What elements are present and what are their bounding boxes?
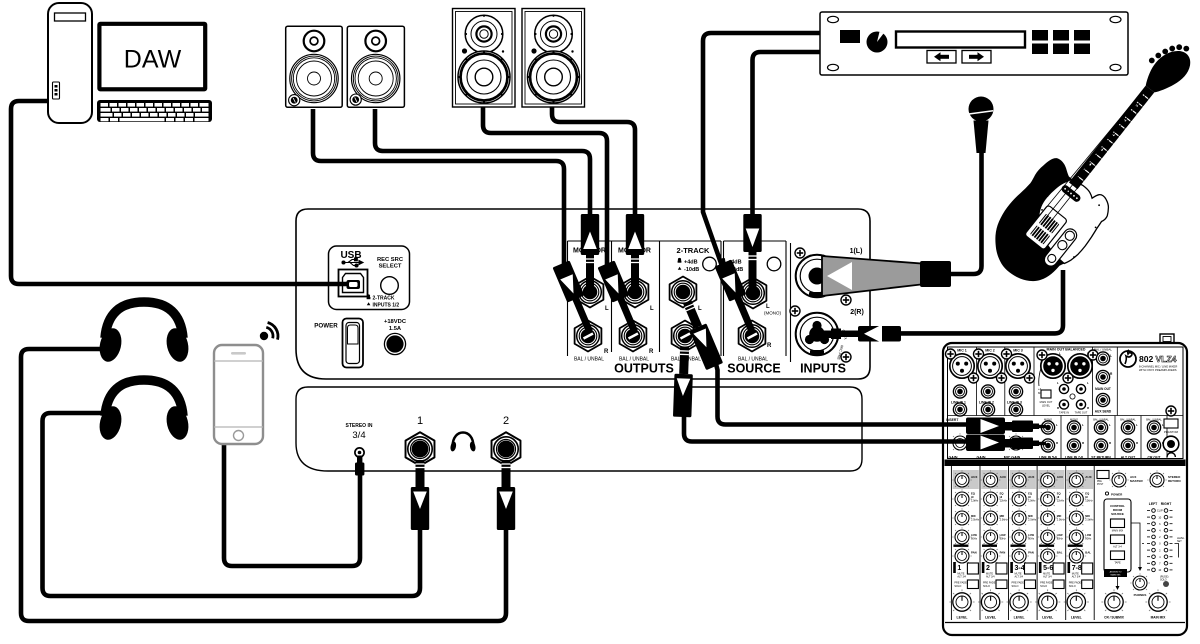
2-TRACK L jack [670, 277, 697, 308]
svg-text:STEREO IN: STEREO IN [346, 423, 373, 429]
svg-text:AUX: AUX [971, 475, 977, 479]
Mackie logo [1120, 351, 1136, 367]
svg-text:MAIN OUT: MAIN OUT [1095, 387, 1111, 391]
svg-text:POWER: POWER [314, 323, 338, 330]
svg-text:BAL: BAL [1057, 551, 1063, 555]
wire: phones 2 to headphone A [21, 349, 506, 621]
svg-text:L: L [1109, 423, 1111, 427]
svg-text:TAPE IN: TAPE IN [1059, 411, 1069, 415]
svg-text:L: L [1136, 423, 1138, 427]
svg-text:12kHz: 12kHz [1028, 499, 1036, 503]
802 AUX MASTER knob [1109, 470, 1129, 487]
svg-text:12kHz: 12kHz [1000, 499, 1008, 503]
svg-text:LEVEL: LEVEL [1042, 616, 1053, 620]
POWER switch [314, 319, 363, 368]
plug: 2-TRACK R output (to 802) [673, 347, 694, 418]
svg-text:L: L [698, 306, 702, 312]
svg-text:GAIN: GAIN [949, 456, 958, 460]
svg-text:WITH ONYX PREAMPLIFIERS: WITH ONYX PREAMPLIFIERS [1139, 368, 1177, 372]
2-TRACK R jack [672, 321, 699, 352]
svg-text:12kHz: 12kHz [1085, 499, 1093, 503]
svg-text:LEVEL: LEVEL [985, 616, 996, 620]
svg-text:L: L [1059, 352, 1061, 356]
802 LINE IN 2 jack [981, 385, 994, 398]
svg-text:2.5kHz: 2.5kHz [1028, 518, 1037, 522]
svg-text:PRE: PRE [1097, 481, 1102, 483]
MONITOR 2 L jack [622, 277, 649, 308]
svg-text:POWER: POWER [1111, 493, 1123, 497]
802VLZ4 mixer [943, 334, 1187, 635]
MONITOR 1 L jack [577, 277, 604, 308]
plug: MONITOR2 R diagonal (from speaker C) [598, 260, 643, 334]
svg-text:2.5kHz: 2.5kHz [971, 518, 980, 522]
svg-text:LINE IN 7-8: LINE IN 7-8 [1065, 456, 1083, 460]
svg-text:R: R [649, 349, 654, 355]
svg-text:2(R): 2(R) [850, 309, 864, 316]
plug: 1/4-inch into 2(R) from guitar [831, 325, 901, 344]
svg-text:MAIN OUT BALANCED: MAIN OUT BALANCED [1047, 348, 1086, 352]
802 STEREO RETURN knob [1147, 470, 1167, 487]
wire: 2-TRACK L to 802 line in 5-6 L [716, 362, 971, 425]
802 LINE IN 3 jack [1009, 385, 1022, 398]
svg-text:CR / SUBMIX: CR / SUBMIX [1104, 616, 1125, 620]
headphone A [96, 302, 191, 364]
wire: speaker A to MONITOR1 R [313, 109, 564, 266]
plug: MONITOR1 L (from speaker B) [581, 214, 599, 286]
svg-text:LEVEL: LEVEL [957, 616, 968, 620]
plug: 802 line in 5-6 L (from 2-TRACK L) [966, 418, 1046, 435]
svg-text:TAPE OUT: TAPE OUT [1075, 411, 1088, 415]
svg-text:REC SRC: REC SRC [377, 257, 404, 263]
svg-text:L: L [1057, 381, 1059, 385]
svg-text:80Hz: 80Hz [1085, 537, 1092, 541]
svg-text:RIGHT: RIGHT [1161, 502, 1172, 506]
svg-text:80Hz: 80Hz [1028, 537, 1035, 541]
svg-text:VLZ4: VLZ4 [1156, 354, 1177, 364]
802 TAPE IN/OUT RCA jacks [1059, 384, 1068, 393]
plug: 802 line in 5-6 R (from 2-TRACK R) [966, 435, 1046, 452]
svg-text:AUX: AUX [1057, 475, 1063, 479]
svg-text:802: 802 [1139, 354, 1154, 364]
svg-text:CLIP: CLIP [1157, 509, 1163, 513]
plug: mini plug into STEREO IN 3/4 [355, 456, 364, 476]
svg-text:2-TRACK: 2-TRACK [677, 246, 710, 255]
svg-text:ALT 3-4: ALT 3-4 [1113, 546, 1122, 549]
svg-text:INSERT: INSERT [946, 418, 959, 422]
svg-text:POST: POST [1097, 484, 1104, 486]
svg-text:L: L [1110, 354, 1112, 358]
svg-text:MASTER: MASTER [1130, 479, 1144, 483]
svg-text:RETURN: RETURN [1168, 479, 1181, 483]
wire: speaker B to MONITOR1 L [375, 109, 590, 220]
svg-text:L: L [1082, 423, 1084, 427]
svg-text:SOLO: SOLO [1012, 585, 1019, 588]
svg-text:TAPE: TAPE [1114, 562, 1121, 565]
svg-text:2-TRACK: 2-TRACK [373, 296, 395, 302]
svg-text:80Hz: 80Hz [971, 537, 978, 541]
keyboard [97, 100, 212, 122]
svg-text:L: L [650, 306, 654, 312]
svg-text:+4dB: +4dB [684, 260, 698, 266]
802 channel gain knobs [950, 433, 970, 450]
headphone B [96, 380, 191, 442]
DAW monitor [97, 22, 207, 92]
svg-text:INPUTS: INPUTS [800, 362, 846, 376]
wire: 2-TRACK R to 802 line in 5-6 R [684, 415, 970, 442]
svg-text:1(L): 1(L) [850, 248, 863, 255]
svg-text:SOLO: SOLO [1069, 585, 1076, 588]
svg-text:EQ: EQ [1085, 492, 1089, 496]
svg-text:PAN: PAN [1000, 551, 1006, 555]
svg-text:USB: USB [340, 250, 361, 261]
wire: guitar to 2(R) plug [898, 270, 1063, 333]
svg-text:MAIN MIX: MAIN MIX [1112, 530, 1124, 533]
802 MAIN MIX knob [1145, 589, 1170, 611]
svg-text:3-4: 3-4 [1015, 565, 1025, 572]
802 main out level switch [1039, 368, 1041, 386]
svg-text:MIC 2: MIC 2 [985, 349, 995, 353]
USB trident icon [342, 258, 363, 267]
svg-text:80Hz: 80Hz [1000, 537, 1007, 541]
svg-text:7-8: 7-8 [1072, 565, 1082, 572]
802 jack panel dividers [948, 347, 1184, 459]
studio monitor speaker C [453, 9, 516, 108]
svg-text:MIC 1: MIC 1 [957, 349, 967, 353]
svg-text:+18VDC: +18VDC [384, 319, 407, 325]
svg-text:1: 1 [957, 565, 961, 572]
svg-text:ALT 3/4: ALT 3/4 [1072, 576, 1081, 579]
802 CR/SUBMIX knob [1101, 589, 1126, 611]
smartphone [214, 345, 263, 444]
802 LINE IN 1 jack [953, 385, 966, 398]
OUTPUTS section frame [568, 241, 791, 362]
svg-text:BAL / UNBAL: BAL / UNBAL [1094, 348, 1112, 352]
802 channel strip 3-4 [1007, 466, 1037, 620]
802 CONTROL ROOM SOURCE [1104, 499, 1131, 572]
wire: computer USB to controller USB port [11, 101, 349, 284]
plug: phones 1 [411, 460, 429, 530]
svg-text:MAIN MIX: MAIN MIX [1111, 574, 1122, 577]
SOURCE R jack [739, 321, 766, 352]
802 assign to main mix button [1104, 569, 1127, 577]
svg-text:SET: SET [1177, 540, 1182, 543]
microphone [969, 97, 994, 154]
svg-text:PAN: PAN [971, 551, 977, 555]
802 PHANTOM switch [1166, 406, 1176, 416]
electric guitar [995, 44, 1190, 281]
svg-text:5-6: 5-6 [1043, 565, 1053, 572]
svg-text:CR OUT: CR OUT [1148, 456, 1162, 460]
STEREO IN 3/4 mini jack [346, 423, 373, 457]
802 channel 2 lower jack [981, 403, 994, 416]
plug: SOURCE L (from rack) [743, 214, 761, 293]
svg-text:SOURCE: SOURCE [1111, 512, 1124, 516]
svg-text:AUX: AUX [1028, 475, 1034, 479]
svg-text:MAIN MIX: MAIN MIX [1151, 616, 1167, 620]
svg-text:(MONO): (MONO) [764, 311, 781, 316]
802 power connector tab [1160, 334, 1174, 344]
wire: microphone to XLR plug [950, 150, 982, 274]
svg-text:L: L [1056, 423, 1058, 427]
svg-text:MIC 3: MIC 3 [1013, 349, 1023, 353]
svg-text:OUTPUTS: OUTPUTS [614, 362, 674, 376]
svg-text:-10dB: -10dB [684, 267, 699, 273]
802 channel 1 lower jack [953, 403, 966, 416]
studio monitor speaker D [522, 9, 585, 108]
svg-text:L: L [766, 304, 770, 310]
802 channel strip 7-8 [1064, 466, 1094, 620]
802 routing arrows [1131, 523, 1140, 567]
svg-text:ALT OUT: ALT OUT [1121, 456, 1136, 460]
SOURCE section [722, 258, 726, 263]
svg-text:ASSIGN TO: ASSIGN TO [1110, 571, 1122, 574]
SOURCE L (MONO) jack [740, 278, 767, 309]
svg-text:PHONES: PHONES [1134, 593, 1147, 597]
svg-text:1: 1 [417, 415, 423, 427]
wireless signal icon [260, 323, 278, 341]
plug: 2-TRACK L output (to 802) [679, 299, 723, 371]
svg-text:ALT 3/4: ALT 3/4 [986, 576, 995, 579]
svg-text:R: R [604, 349, 609, 355]
svg-text:SOLO: SOLO [1040, 585, 1047, 588]
svg-text:LEVEL: LEVEL [1014, 616, 1025, 620]
plug: MONITOR1 R diagonal (from speaker A) [553, 260, 598, 334]
wire: speaker D to MONITOR2 L [552, 106, 635, 220]
svg-text:12kHz: 12kHz [1057, 499, 1065, 503]
plug: XLR into 1(L) from microphone [822, 256, 951, 296]
svg-text:ALT 3/4: ALT 3/4 [957, 576, 966, 579]
plug: SOURCE R diagonal (from rack) [715, 259, 760, 333]
MONITOR 2 R jack [620, 321, 647, 352]
wire: phones 1 to headphone B [43, 413, 421, 596]
802 power LED [1105, 492, 1108, 495]
svg-text:LEVEL: LEVEL [1071, 616, 1082, 620]
svg-text:BAL: BAL [1085, 551, 1091, 555]
wire: rack unit out L to SOURCE R [703, 33, 822, 266]
MONITOR 1 R jack [575, 321, 602, 352]
svg-text:SELECT: SELECT [379, 264, 402, 270]
802 AUX SEND jack [1096, 393, 1109, 406]
svg-text:2: 2 [503, 415, 509, 427]
svg-text:8-CHANNEL MIC / LINE MIXER: 8-CHANNEL MIC / LINE MIXER [1139, 365, 1177, 369]
802 aux master switch [1097, 471, 1109, 479]
wire: rack unit out R to SOURCE L [753, 52, 823, 232]
802 front edge [945, 622, 1185, 624]
computer tower [48, 3, 92, 123]
svg-text:EQ: EQ [1057, 492, 1061, 496]
svg-text:INPUTS 1/2: INPUTS 1/2 [373, 302, 400, 308]
wire: speaker C to MONITOR2 R [483, 106, 607, 266]
802 channel 3 lower jack [1009, 403, 1022, 416]
svg-text:PHANTOM: PHANTOM [1164, 430, 1179, 434]
wire: smartphone to STEREO IN 3/4 [224, 440, 360, 566]
svg-text:DAW: DAW [124, 46, 182, 74]
monitor controller front panel [296, 387, 862, 471]
svg-text:SOLO: SOLO [983, 585, 990, 588]
USB-B port [339, 270, 368, 297]
svg-text:PAN: PAN [1028, 551, 1034, 555]
svg-text:LEFT: LEFT [1149, 502, 1158, 506]
svg-text:12kHz: 12kHz [971, 499, 979, 503]
svg-text:ST RETURN: ST RETURN [1091, 456, 1111, 460]
802 phones jack [1163, 436, 1179, 452]
svg-text:1.5A: 1.5A [389, 326, 402, 332]
plug: phones 2 [497, 460, 515, 530]
svg-text:2: 2 [986, 565, 990, 572]
svg-text:2.5kHz: 2.5kHz [1000, 518, 1009, 522]
svg-text:MIC GAIN: MIC GAIN [1004, 456, 1021, 460]
svg-text:R: R [767, 343, 772, 349]
802 chassis outline [943, 343, 1187, 635]
svg-text:SOLO: SOLO [954, 585, 961, 588]
studio monitor speaker A [286, 26, 343, 107]
svg-text:ALT 3/4: ALT 3/4 [1043, 576, 1052, 579]
svg-text:LEVEL: LEVEL [1042, 404, 1051, 408]
svg-text:MAIN OUT: MAIN OUT [1040, 400, 1053, 404]
svg-text:ALT 3/4: ALT 3/4 [1015, 576, 1024, 579]
USB section box [329, 246, 410, 310]
svg-text:80Hz: 80Hz [1057, 537, 1064, 541]
svg-text:AUX: AUX [1085, 475, 1091, 479]
svg-text:2.5kHz: 2.5kHz [1057, 518, 1066, 522]
svg-text:L: L [605, 306, 609, 312]
svg-text:3/4: 3/4 [352, 430, 365, 441]
studio monitor speaker B [347, 26, 404, 107]
svg-text:2.5kHz: 2.5kHz [1085, 518, 1094, 522]
svg-text:AUX SEND: AUX SEND [1095, 410, 1112, 414]
headphone icon [453, 433, 474, 448]
svg-text:SOURCE: SOURCE [727, 362, 780, 376]
802 channel strip 5-6 [1035, 466, 1065, 620]
plug: MONITOR2 L (from speaker D) [626, 214, 644, 286]
svg-text:EQ: EQ [971, 492, 975, 496]
802 PHONES knob [1130, 573, 1150, 590]
svg-text:L: L [1087, 381, 1089, 385]
monitor controller rear panel [296, 209, 870, 379]
svg-text:EQ: EQ [1000, 492, 1004, 496]
svg-text:BAL / UNBAL: BAL / UNBAL [574, 357, 604, 363]
802 panel divider bar [945, 460, 1186, 467]
802 channel strip 1 [949, 466, 979, 620]
svg-text:EQ: EQ [1028, 492, 1032, 496]
svg-text:LINE IN 5-6: LINE IN 5-6 [1039, 456, 1057, 460]
svg-text:GAIN: GAIN [977, 456, 986, 460]
rack effects unit [820, 12, 1128, 75]
802 channel strip 2 [978, 466, 1008, 620]
+18VDC power connector [384, 319, 407, 355]
svg-text:AUX: AUX [1000, 475, 1006, 479]
